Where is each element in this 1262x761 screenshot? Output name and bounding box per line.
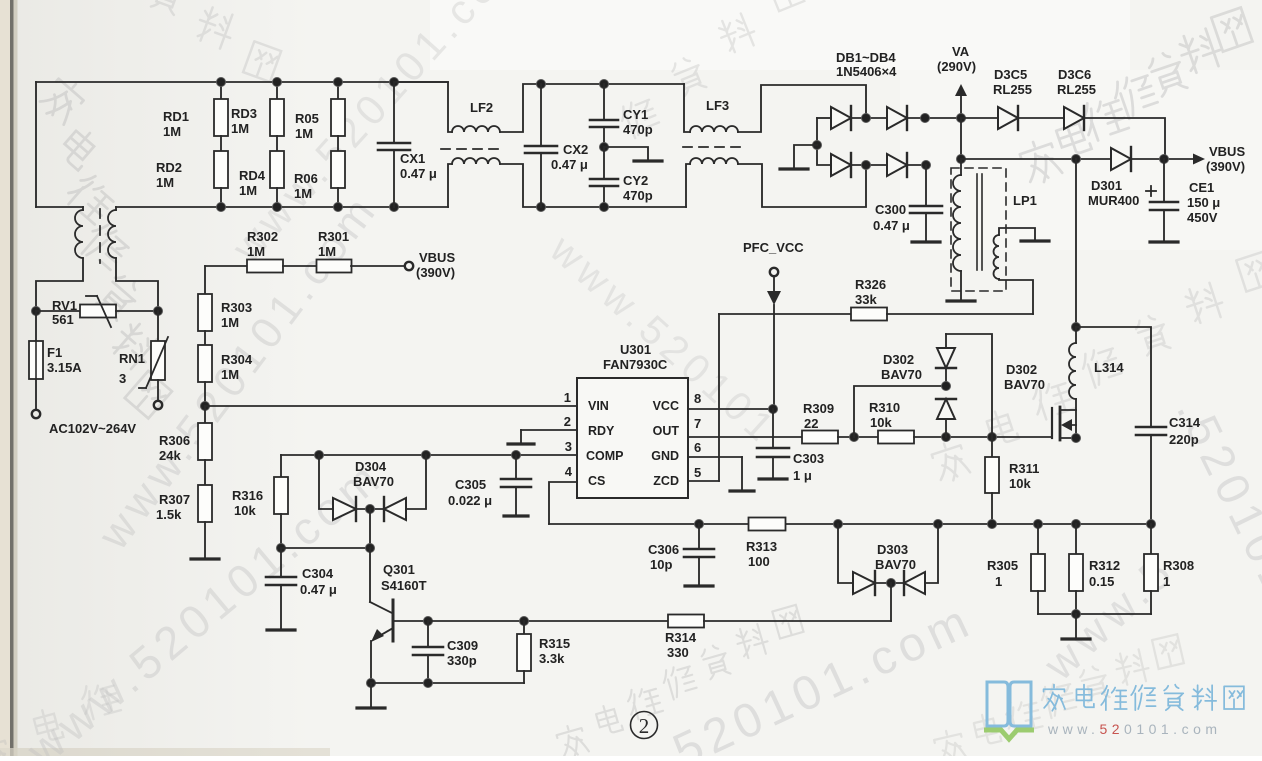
capacitor CE1 (electrolytic): [1163, 159, 1165, 201]
svg-text:D302: D302: [883, 352, 914, 367]
svg-text:R304: R304: [221, 352, 253, 367]
capacitor CY2: [603, 147, 605, 178]
node COMP/D304 right: [422, 451, 431, 460]
svg-text:DB1~DB4: DB1~DB4: [836, 50, 896, 65]
svg-text:1M: 1M: [163, 124, 181, 139]
ground chassis pin2 RDY: [520, 430, 522, 443]
capacitor C303: [772, 409, 774, 447]
node R316/C304: [277, 544, 286, 553]
svg-text:(390V): (390V): [1206, 159, 1245, 174]
node bridge - out: [922, 161, 931, 170]
node top bus / R05: [273, 78, 282, 87]
svg-text:22: 22: [804, 416, 818, 431]
svg-text:R05: R05: [295, 111, 319, 126]
node MOSFET source: [1072, 434, 1081, 443]
capacitor CX1: [393, 82, 395, 142]
terminal VBUS (390V): [405, 262, 413, 270]
svg-text:561: 561: [52, 312, 74, 327]
resistor R309: [802, 431, 838, 444]
svg-text:ZCD: ZCD: [653, 474, 679, 488]
node bottom bus / RD4: [217, 203, 226, 212]
svg-text:(290V): (290V): [937, 59, 976, 74]
svg-text:0.47 μ: 0.47 μ: [873, 218, 910, 233]
svg-text:24k: 24k: [159, 448, 181, 463]
svg-text:CS: CS: [588, 474, 605, 488]
node COMP/D304 left: [315, 451, 324, 460]
svg-text:D302: D302: [1006, 362, 1037, 377]
svg-text:MUR400: MUR400: [1088, 193, 1139, 208]
wire top AC bus: [36, 81, 448, 83]
svg-text:1 μ: 1 μ: [793, 468, 812, 483]
svg-text:150 μ: 150 μ: [1187, 195, 1220, 210]
svg-text:CX2: CX2: [563, 142, 588, 157]
wire base row: [428, 620, 668, 622]
svg-text:RD1: RD1: [163, 109, 189, 124]
svg-text:220p: 220p: [1169, 432, 1199, 447]
wire ZCD up: [718, 314, 720, 481]
resistor R306: [204, 406, 206, 423]
svg-text:D301: D301: [1091, 178, 1122, 193]
watermark CJK mid-right: [930, 252, 1262, 485]
node top bus / CX1: [390, 78, 399, 87]
svg-text:3: 3: [119, 371, 126, 386]
svg-text:D3C5: D3C5: [994, 67, 1027, 82]
svg-text:R305: R305: [987, 558, 1018, 573]
diode D303 BAV70: [838, 524, 853, 583]
svg-text:R309: R309: [803, 401, 834, 416]
svg-text:1M: 1M: [294, 186, 312, 201]
node bridge AC2 bottom: [862, 161, 871, 170]
svg-text:GND: GND: [651, 449, 679, 463]
svg-text:1M: 1M: [156, 175, 174, 190]
svg-text:470p: 470p: [623, 188, 653, 203]
svg-text:330: 330: [667, 645, 689, 660]
svg-text:LP1: LP1: [1013, 193, 1037, 208]
svg-text:1M: 1M: [221, 315, 239, 330]
svg-text:CE1: CE1: [1189, 180, 1214, 195]
svg-text:C303: C303: [793, 451, 824, 466]
logo site name (pseudo CJK): [1044, 685, 1244, 711]
svg-text:R308: R308: [1163, 558, 1194, 573]
wire left edge vertical: [35, 82, 37, 207]
node sense ground: [1072, 610, 1081, 619]
svg-text:R326: R326: [855, 277, 886, 292]
svg-text:0.15: 0.15: [1089, 574, 1114, 589]
svg-text:VA: VA: [952, 44, 970, 59]
node boost input: [957, 155, 966, 164]
svg-text:RL255: RL255: [993, 82, 1032, 97]
net VA (290V) arrow: [955, 84, 967, 96]
wire bottom AC bus: [116, 206, 448, 208]
node R312/source: [1072, 520, 1081, 529]
node VCC: [769, 405, 778, 414]
svg-text:R302: R302: [247, 229, 278, 244]
resistor R312: [1075, 524, 1077, 554]
ground chassis sense resistors: [1038, 613, 1151, 615]
watermark CJK left edge: [36, 73, 172, 418]
svg-text:AC102V~264V: AC102V~264V: [49, 421, 136, 436]
svg-text:R316: R316: [232, 488, 263, 503]
scan page left edge: [0, 0, 10, 756]
svg-text:1: 1: [995, 574, 1002, 589]
resistor R307: [204, 460, 206, 485]
svg-text:OUT: OUT: [653, 424, 680, 438]
svg-text:3.15A: 3.15A: [47, 360, 82, 375]
watermark CJK bottom-left: [0, 679, 121, 761]
ground chassis at CY midpoint: [604, 147, 648, 160]
net VBUS (390V) arrow: [1193, 154, 1205, 165]
svg-text:R301: R301: [318, 229, 349, 244]
terminal AC input L: [32, 410, 40, 418]
svg-text:D303: D303: [877, 542, 908, 557]
node bridge AC1 top: [862, 114, 871, 123]
svg-text:BAV70: BAV70: [875, 557, 916, 572]
svg-text:1M: 1M: [231, 121, 249, 136]
node CY2 bottom: [600, 203, 609, 212]
terminal AC input N: [154, 401, 162, 409]
op-amp U301 FAN7930C (controller IC): [577, 378, 688, 498]
svg-text:RD2: RD2: [156, 160, 182, 175]
wire R309 to R310: [838, 436, 878, 438]
node C309 bottom: [424, 679, 433, 688]
svg-text:RV1: RV1: [52, 298, 77, 313]
svg-text:2: 2: [639, 714, 650, 738]
resistor R05: [276, 82, 278, 99]
svg-text:BAV70: BAV70: [1004, 377, 1045, 392]
svg-text:BAV70: BAV70: [353, 474, 394, 489]
resistor R311: [991, 437, 993, 457]
ground chassis Q301 emitter: [370, 683, 372, 706]
svg-text:FAN7930C: FAN7930C: [603, 357, 668, 372]
svg-text:LF3: LF3: [706, 98, 729, 113]
watermark CJK top-middle: [617, 0, 804, 140]
node R308/C314: [1147, 520, 1156, 529]
node top bus / col3: [334, 78, 343, 87]
svg-text:U301: U301: [620, 342, 651, 357]
diode D3C5: [961, 117, 998, 119]
node bridge + out: [921, 114, 930, 123]
ground chassis pin6 GND: [741, 457, 743, 490]
capacitor C309: [427, 621, 429, 646]
watermark CJK top-left partial: [149, 0, 282, 82]
svg-text:C305: C305: [455, 477, 486, 492]
transformer LF1 input choke winding B: [115, 207, 117, 210]
resistor R313: [749, 518, 786, 531]
resistor R304: [204, 331, 206, 345]
svg-text:0.022 μ: 0.022 μ: [448, 493, 492, 508]
node R309/R310/D302: [850, 433, 859, 442]
svg-text:R313: R313: [746, 539, 777, 554]
node D304/Q301: [366, 544, 375, 553]
svg-text:PFC_VCC: PFC_VCC: [743, 240, 804, 255]
resistor RD3: [220, 82, 222, 99]
watermark CJK top-right: [1017, 8, 1252, 187]
svg-text:10k: 10k: [870, 415, 892, 430]
resistor R314: [668, 615, 704, 628]
svg-text:R307: R307: [159, 492, 190, 507]
resistor R303: [204, 266, 206, 294]
node D303 right: [934, 520, 943, 529]
node VA: [957, 114, 966, 123]
svg-text:0.47 μ: 0.47 μ: [551, 157, 588, 172]
node Q301 emitter: [367, 679, 376, 688]
node CE1 top: [1160, 155, 1169, 164]
node CX2 bottom: [537, 203, 546, 212]
node CY1 top: [600, 80, 609, 89]
resistor R326: [719, 313, 851, 315]
wire VBUS row: [961, 158, 1111, 160]
inductor LF3 core (dashed): [683, 146, 741, 148]
wire R316 to Q301 collector: [281, 547, 370, 549]
transformer LF1 core (dashed): [99, 209, 101, 263]
wire COMP row: [281, 454, 577, 456]
svg-text:10k: 10k: [234, 503, 256, 518]
node D304 common: [366, 505, 375, 514]
resistor RD4: [214, 151, 228, 188]
node bridge left: [813, 141, 822, 150]
inductor LF3 top winding: [684, 84, 690, 132]
node COMP/C305: [512, 451, 521, 460]
svg-text:F1: F1: [47, 345, 62, 360]
svg-text:1.5k: 1.5k: [156, 507, 182, 522]
wire R301 to VBUS terminal: [351, 265, 404, 267]
svg-text:C300: C300: [875, 202, 906, 217]
thermistor RN1: [157, 311, 159, 341]
wire CS row: [549, 523, 1151, 525]
svg-text:COMP: COMP: [586, 449, 624, 463]
node PFC switch top: [1072, 155, 1081, 164]
svg-text:R306: R306: [159, 433, 190, 448]
svg-text:450V: 450V: [1187, 210, 1218, 225]
resistor column 3: [337, 82, 339, 99]
logo book icon: [987, 682, 1031, 726]
diode D304 BAV70: [319, 455, 333, 509]
svg-text:1M: 1M: [221, 367, 239, 382]
ground chassis LP1 primary: [947, 299, 975, 302]
svg-text:(390V): (390V): [416, 265, 455, 280]
resistor R305: [1037, 524, 1039, 554]
resistor R06: [270, 151, 284, 188]
resistor R308: [1150, 524, 1152, 554]
inductor LF3 bottom winding: [686, 164, 690, 207]
svg-text:LF2: LF2: [470, 100, 493, 115]
svg-text:C309: C309: [447, 638, 478, 653]
svg-text:3.3k: 3.3k: [539, 651, 565, 666]
transistor Q301 S4160T: [369, 548, 371, 602]
node CX2 top: [537, 80, 546, 89]
node bottom bus / col3: [334, 203, 343, 212]
watermark CJK bottom-right: [933, 634, 1184, 761]
svg-text:1: 1: [564, 390, 571, 405]
transformer LP1 core: [976, 174, 978, 270]
node RN1/RV1: [154, 307, 163, 316]
svg-text:10p: 10p: [650, 557, 672, 572]
diode DB3: [817, 118, 831, 165]
transistor Q-PFC MOSFET: [1051, 408, 1053, 438]
watermark CJK bottom-middle: [555, 605, 804, 761]
node D303 common: [887, 579, 896, 588]
resistor R316: [280, 455, 282, 477]
svg-text:1M: 1M: [295, 126, 313, 141]
capacitor C305: [515, 455, 517, 478]
svg-text:VBUS: VBUS: [1209, 144, 1245, 159]
svg-text:R06: R06: [294, 171, 318, 186]
svg-text:VCC: VCC: [653, 399, 679, 413]
svg-text:C306: C306: [648, 542, 679, 557]
svg-text:C304: C304: [302, 566, 334, 581]
capacitor C304: [280, 548, 282, 576]
svg-text:D304: D304: [355, 459, 387, 474]
node R305: [1034, 520, 1043, 529]
svg-text:C314: C314: [1169, 415, 1201, 430]
svg-text:0.47 μ: 0.47 μ: [300, 582, 337, 597]
node CY1/CY2 midpoint: [600, 143, 609, 152]
node bottom bus / CX1: [390, 203, 399, 212]
svg-text:CY1: CY1: [623, 107, 648, 122]
svg-text:VIN: VIN: [588, 399, 609, 413]
transformer LP1 ZCD winding: [999, 228, 1035, 239]
svg-text:10k: 10k: [1009, 476, 1031, 491]
svg-text:D3C6: D3C6: [1058, 67, 1091, 82]
wire gate row: [914, 436, 1052, 438]
svg-text:R310: R310: [869, 400, 900, 415]
node R311 bottom: [988, 520, 997, 529]
node R315 top: [520, 617, 529, 626]
diode D3C6: [1018, 117, 1064, 119]
svg-text:1: 1: [1163, 574, 1170, 589]
svg-text:RL255: RL255: [1057, 82, 1096, 97]
svg-text:100: 100: [748, 554, 770, 569]
resistor R310: [878, 431, 914, 444]
svg-text:R315: R315: [539, 636, 570, 651]
svg-text:2: 2: [564, 414, 571, 429]
svg-text:R303: R303: [221, 300, 252, 315]
capacitor C314: [1076, 327, 1151, 426]
svg-text:33k: 33k: [855, 292, 877, 307]
inductor LF2 core (dashed): [441, 148, 499, 150]
diode DB2: [887, 107, 907, 129]
svg-text:R311: R311: [1009, 461, 1039, 476]
svg-text:3: 3: [565, 439, 572, 454]
svg-text:470p: 470p: [623, 122, 653, 137]
scan bottom-left edge shading: [0, 748, 330, 756]
node C306: [695, 520, 704, 529]
svg-text:5: 5: [694, 465, 701, 480]
svg-text:7: 7: [694, 416, 701, 431]
resistor R302: [205, 265, 247, 267]
node L314 top: [1072, 323, 1081, 332]
node bottom bus / R06: [273, 203, 282, 212]
node F1/RV1: [32, 307, 41, 316]
wire VIN to pin1: [205, 405, 577, 407]
svg-text:S4160T: S4160T: [381, 578, 427, 593]
diode DB4: [887, 154, 907, 176]
svg-text:1M: 1M: [247, 244, 265, 259]
node D303 left: [834, 520, 843, 529]
svg-text:Q301: Q301: [383, 562, 415, 577]
ground chassis below R307: [191, 557, 219, 560]
svg-text:R314: R314: [665, 630, 697, 645]
svg-text:1M: 1M: [318, 244, 336, 259]
svg-text:BAV70: BAV70: [881, 367, 922, 382]
resistor R315: [523, 621, 525, 634]
svg-text:RD3: RD3: [231, 106, 257, 121]
inductor L314: [1075, 159, 1077, 327]
svg-text:CY2: CY2: [623, 173, 648, 188]
wire D301 to VBUS arrow: [1131, 158, 1197, 160]
svg-text:4: 4: [565, 464, 573, 479]
svg-text:RN1: RN1: [119, 351, 145, 366]
node D302 common: [942, 382, 951, 391]
fuse F1: [35, 311, 37, 341]
transformer LP1 (dashed outline): [951, 168, 1006, 291]
svg-text:RD4: RD4: [239, 168, 266, 183]
inductor LF2 bottom winding: [448, 164, 452, 207]
transformer LP1 primary winding: [960, 159, 962, 175]
wire bypass diodes to VBUS: [1084, 118, 1165, 159]
node top bus / RD3: [217, 78, 226, 87]
node D302 anode: [942, 433, 951, 442]
diode D301: [1111, 148, 1131, 170]
wire bottom AC bus left: [36, 206, 83, 208]
capacitor C300: [925, 165, 927, 205]
svg-text:L314: L314: [1094, 360, 1124, 375]
svg-text:1M: 1M: [239, 183, 257, 198]
svg-text:RDY: RDY: [588, 424, 615, 438]
svg-text:R312: R312: [1089, 558, 1120, 573]
node Q301 base/C309: [424, 617, 433, 626]
inductor LF2 top winding: [394, 82, 452, 132]
svg-text:VBUS: VBUS: [419, 250, 455, 265]
node VIN divider: [201, 402, 210, 411]
resistor R301: [283, 265, 317, 267]
transformer LF1 input choke winding A: [82, 207, 84, 210]
svg-text:6: 6: [694, 440, 701, 455]
svg-text:330p: 330p: [447, 653, 477, 668]
diode D302 BAV70: [854, 386, 946, 437]
svg-text:8: 8: [694, 391, 701, 406]
label circled number 2: [631, 712, 658, 739]
diode DB1: [817, 117, 831, 119]
svg-text:CX1: CX1: [400, 151, 425, 166]
svg-text:1N5406×4: 1N5406×4: [836, 64, 897, 79]
ground chassis ZCD winding top: [1021, 239, 1049, 242]
node R311 top: [988, 433, 997, 442]
capacitor C306: [698, 524, 700, 548]
wire emitter row: [371, 682, 524, 684]
svg-text:0.47 μ: 0.47 μ: [400, 166, 437, 181]
svg-text:www.520101.com: www.520101.com: [1047, 721, 1222, 737]
